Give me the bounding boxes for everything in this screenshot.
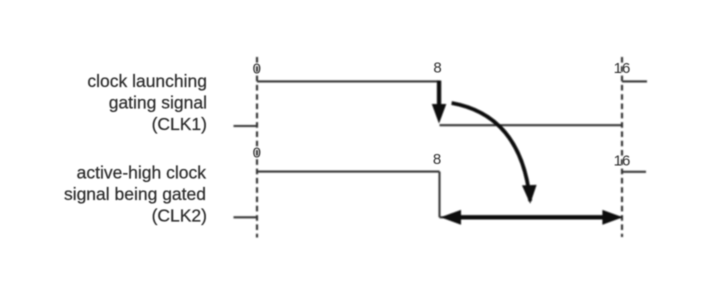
wire CLK1 high segment 0 to 8 — [257, 80, 440, 82]
wire CLK2 low stub left — [234, 216, 258, 218]
svg-text:clock launching: clock launching — [87, 71, 207, 91]
arrow curved cause-effect from CLK1 edge to gated interval — [452, 103, 537, 204]
svg-text:(CLK2): (CLK2) — [152, 206, 207, 226]
wire CLK2 high stub right of 16 — [622, 171, 646, 173]
node time 16 dashed reference line — [621, 57, 623, 237]
arrow CLK1 falling edge at 8 (thick down arrow) — [432, 81, 447, 124]
node time 0 dashed reference line — [256, 57, 258, 238]
label CLK2 signal name — [64, 163, 207, 226]
wire CLK2 falling edge at 8 — [438, 172, 440, 218]
svg-text:(CLK1): (CLK1) — [152, 114, 207, 134]
wire CLK2 high segment 0 to 8 — [257, 171, 440, 173]
arrow double-headed gated interval 8 to 16 — [441, 210, 623, 225]
svg-text:active-high clock: active-high clock — [77, 163, 207, 183]
wire CLK2 low segment 8 to 16 — [440, 216, 623, 218]
svg-text:8: 8 — [433, 151, 441, 168]
wire CLK1 high stub right of 16 — [622, 80, 647, 82]
wire CLK1 low stub left — [234, 125, 258, 127]
label CLK1 signal name — [87, 71, 207, 134]
wire CLK1 low segment 8 to 16 — [440, 124, 623, 126]
svg-text:signal being gated: signal being gated — [64, 184, 206, 204]
svg-text:8: 8 — [433, 60, 441, 77]
svg-text:gating signal: gating signal — [109, 93, 207, 113]
